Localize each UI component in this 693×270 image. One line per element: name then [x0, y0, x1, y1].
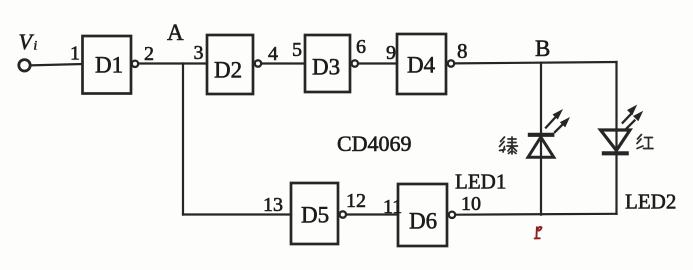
- svg-text:10: 10: [461, 193, 481, 215]
- svg-text:11: 11: [383, 196, 402, 218]
- svg-text:13: 13: [263, 194, 283, 216]
- inverter D3 box: [305, 35, 350, 92]
- inverter D2 box: [207, 35, 253, 94]
- bubble D2 output pin4: [255, 60, 261, 66]
- wire D1 to D2 pin3: [139, 62, 207, 64]
- wire right corner down to red LED branch: [615, 62, 617, 214]
- label green Chinese char 绿: [500, 137, 518, 154]
- LED2 light emission arrows: [623, 105, 644, 129]
- svg-text:Vi: Vi: [19, 29, 38, 54]
- svg-text:D6: D6: [409, 209, 437, 234]
- bubble D5 output pin12: [340, 211, 346, 217]
- svg-text:8: 8: [457, 39, 468, 63]
- svg-text:A: A: [167, 20, 184, 45]
- wire D4 pin8 to node B and right corner: [455, 62, 617, 63]
- svg-text:4: 4: [268, 43, 278, 65]
- bubble D4 output pin8: [448, 60, 454, 66]
- svg-text:5: 5: [292, 39, 302, 61]
- svg-text:D1: D1: [95, 53, 123, 78]
- wire Vi to D1 pin1: [31, 64, 83, 65]
- svg-text:LED2: LED2: [625, 190, 676, 214]
- svg-text:2: 2: [144, 43, 154, 65]
- LED1 green LED symbol (cathode bar on top, triangle pointing up): [528, 135, 555, 158]
- wire node B down to green LED branch: [540, 63, 542, 215]
- wire D6 pin10 to LED branches: [456, 213, 617, 216]
- svg-text:CD4069: CD4069: [337, 131, 412, 156]
- LED2 red LED symbol (triangle pointing down, cathode bar below): [601, 130, 631, 153]
- wire node A corner to D5 pin13: [183, 213, 291, 215]
- input terminal Vi: [19, 60, 30, 71]
- inverter D5 box: [291, 183, 338, 244]
- red watermark mark r: [535, 227, 542, 238]
- svg-text:B: B: [535, 36, 550, 61]
- svg-text:3: 3: [194, 42, 204, 64]
- svg-text:D3: D3: [312, 55, 340, 80]
- wire D5 to D6 pin11: [347, 213, 398, 215]
- inverter D1 box: [83, 36, 132, 94]
- bubble D6 output pin10: [449, 212, 455, 218]
- svg-text:6: 6: [356, 36, 366, 58]
- svg-text:D2: D2: [214, 58, 242, 83]
- svg-text:12: 12: [346, 190, 366, 212]
- bubble D3 output pin6: [352, 60, 358, 66]
- svg-text:9: 9: [386, 42, 396, 64]
- inverter D4 box: [397, 34, 446, 94]
- bubble D1 output pin2: [132, 61, 138, 67]
- inverter D6 box: [398, 184, 447, 246]
- label red Chinese char 红: [637, 135, 653, 149]
- LED1 light emission arrows: [546, 109, 570, 132]
- node A junction vertical wire down: [182, 64, 184, 215]
- svg-text:D4: D4: [407, 53, 436, 78]
- svg-text:1: 1: [70, 43, 80, 65]
- svg-text:D5: D5: [301, 203, 329, 228]
- wire D2 to D3 pin5: [262, 62, 305, 64]
- wire D3 to D4 pin9: [359, 62, 397, 64]
- svg-text:LED1: LED1: [455, 170, 506, 194]
